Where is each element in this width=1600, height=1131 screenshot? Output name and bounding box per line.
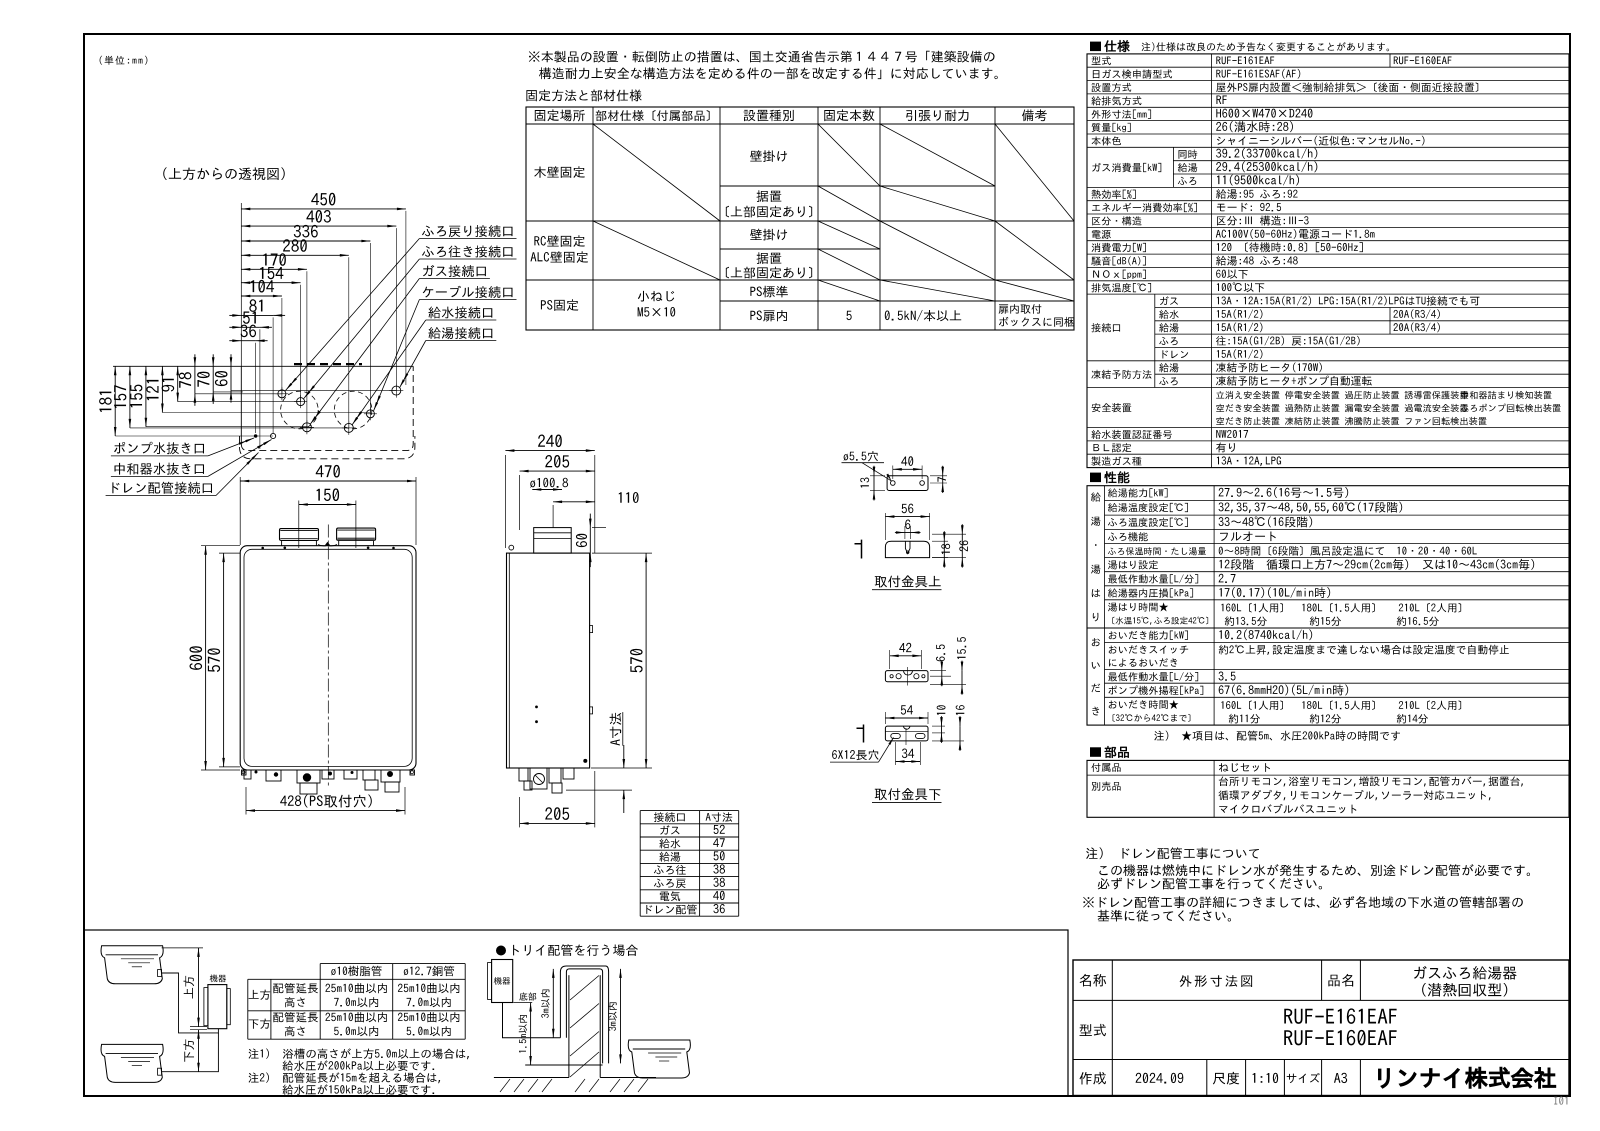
performance row ポンプ機外揚程 xyxy=(1108,685,1203,695)
water-supply connector xyxy=(344,423,353,432)
dimension 10 (bracket-bottom) xyxy=(932,725,945,727)
spec rows 接続口 xyxy=(1091,323,1120,332)
dimension 70 (top view depth) xyxy=(212,366,214,392)
furo-return connector xyxy=(278,390,286,398)
dimension 155 (top view depth) xyxy=(145,366,147,426)
performance row 給湯器内圧損[kPa] xyxy=(1108,588,1193,597)
piping note 2 xyxy=(249,1072,441,1083)
spec row 電源 xyxy=(1092,230,1111,239)
fixing table diagonals (empty cells) xyxy=(593,124,720,221)
spec row 排気温度 xyxy=(1091,283,1151,292)
dimension 570 (side height) xyxy=(592,552,652,554)
piping table header φ12.7銅管 xyxy=(404,966,454,976)
dimension 336 (top view width) xyxy=(241,240,370,242)
side view wall plate line xyxy=(508,553,510,768)
A-table row 電気=40 xyxy=(660,891,680,901)
piping table row 下方 xyxy=(249,1019,270,1029)
bracket-top keyhole slot xyxy=(905,541,910,553)
label 機器 (tori) xyxy=(494,977,510,985)
top view back wall line xyxy=(113,365,413,367)
side view panel dots xyxy=(535,706,538,709)
top view unit dashed outline xyxy=(240,366,242,444)
front view pipe base screws xyxy=(284,547,287,550)
fixing table caption xyxy=(526,90,641,102)
dimension 60 (top view depth) xyxy=(230,366,232,390)
dimension 280 (top view width) xyxy=(241,254,348,256)
title cell サイズ xyxy=(1287,1073,1320,1083)
label 取付金具上 xyxy=(875,575,941,587)
piping table row 上方 xyxy=(249,990,271,1000)
title cell A3 xyxy=(1334,1073,1347,1083)
dimension 36 (top view width) xyxy=(241,340,255,342)
label furo-return connector (ふろ戻り接続口) xyxy=(422,225,513,237)
spec row 区分・構造 xyxy=(1092,216,1141,225)
bracket-top lower part xyxy=(885,541,929,557)
label 6X12長穴 xyxy=(832,750,878,760)
sheet number I01 xyxy=(1554,1097,1567,1105)
performance row 給湯温度設定[℃] xyxy=(1108,503,1188,512)
A-table row 接続口=A寸法 xyxy=(654,812,685,822)
tori ground line left xyxy=(494,1077,569,1079)
label pump drain (ポンプ水抜き口) xyxy=(114,442,204,455)
spec row 消費電力 xyxy=(1092,243,1146,252)
label トリイ配管を行う場合 xyxy=(496,946,506,956)
spec row 製造ガス種 xyxy=(1091,456,1141,465)
bracket-top hole left xyxy=(891,481,896,486)
fixing row RC壁固定/ALC壁固定 xyxy=(534,235,584,247)
spec row 型式 xyxy=(1092,56,1111,65)
upper bathtub xyxy=(101,946,163,984)
installation note line 1 xyxy=(529,51,995,63)
dimension 170 (top view width) xyxy=(241,268,307,270)
tori piping route xyxy=(503,969,603,1064)
tori mid ground line xyxy=(525,1064,602,1066)
performance row ふろ温度設定[℃] xyxy=(1108,518,1188,527)
label water-supply connector (給水接続口) xyxy=(428,306,492,318)
performance row ふろ保温時間・たし湯量 xyxy=(1108,547,1206,555)
spec row ガス消費量 同時 xyxy=(1092,163,1161,172)
front view top screw left xyxy=(261,547,264,550)
dimension 570 (front bracket height) xyxy=(219,552,240,554)
fixing cell 壁掛け (木壁) xyxy=(750,150,787,162)
front view inner panel xyxy=(244,549,412,766)
piping section box xyxy=(84,930,1068,1096)
label φ5.5穴 xyxy=(844,451,878,461)
dimension 40 (bracket-top holes) xyxy=(892,466,894,480)
front view bottom right foot xyxy=(410,770,415,775)
performance row おいだき時間 xyxy=(1109,700,1179,709)
front view center line xyxy=(327,525,329,787)
label gas connector (ガス接続口) xyxy=(423,265,486,277)
fixing cell 据置 (木壁) xyxy=(757,190,782,202)
label neutralizer drain (中和器水抜き口) xyxy=(114,463,204,475)
dimension 51 (top view width) xyxy=(241,326,260,328)
drain note line 2 xyxy=(1098,877,1322,889)
spec row NOx xyxy=(1093,270,1146,279)
dimension 1.5m以内 xyxy=(530,1003,532,1066)
fixing table grid xyxy=(526,107,1074,330)
performance group label おいだき xyxy=(1092,638,1100,646)
performance row 湯はり設定 xyxy=(1108,560,1158,569)
unit note (単位:mm) xyxy=(100,56,148,65)
performance row 湯はり時間 xyxy=(1108,602,1168,611)
title cell 尺度 xyxy=(1213,1072,1239,1085)
drain note heading xyxy=(1086,847,1259,859)
dimension 104 (top view width) xyxy=(241,295,282,297)
front view body outline xyxy=(240,546,416,770)
bracket-bottom strip lower xyxy=(885,726,928,741)
spec row 熱効率 xyxy=(1092,190,1136,199)
A-table row 給水=47 xyxy=(659,838,680,848)
dimension 7 (bracket-top) xyxy=(930,475,947,477)
spec row 質量 xyxy=(1092,123,1131,132)
label furo-supply connector (ふろ往き接続口) xyxy=(422,245,513,257)
piping from lower tub to unit xyxy=(162,1033,219,1072)
front view exhaust pipe (left) xyxy=(280,529,319,541)
top view mounting plate (thick dashed) xyxy=(294,363,362,365)
front view top center mark xyxy=(325,542,330,546)
title cell 2024.09 xyxy=(1136,1073,1184,1084)
label 機器 (left diagram) xyxy=(210,974,226,982)
dimension 154 (top view width) xyxy=(241,282,300,284)
dimension 3m以内 (right) xyxy=(620,969,622,1064)
fixing cell 据置 (RC) xyxy=(757,252,782,264)
dimension 3m以内 (left) xyxy=(552,969,554,1038)
label cable connector (ケーブル接続口) xyxy=(423,286,513,298)
spec row ガス消費量 ふろ xyxy=(1178,177,1196,185)
performance row 給湯能力[kW] xyxy=(1108,488,1168,497)
performance row おいだきスイッチ xyxy=(1109,645,1188,654)
spec row BL認定 xyxy=(1093,443,1131,452)
title company リンナイ株式会社 xyxy=(1379,1067,1556,1088)
dimension 26 (bracket-top) xyxy=(932,533,966,535)
piping table header φ10樹脂管 xyxy=(331,966,381,976)
dimension 56 (bracket-top width) xyxy=(884,513,886,540)
top view exhaust zone dashed circle right xyxy=(334,391,372,429)
spec rows 凍結予防方法 xyxy=(1091,370,1151,379)
A-dimension table xyxy=(640,810,739,812)
label 底部 xyxy=(519,992,536,1000)
fixing cell 扉内取付ボックスに同梱 xyxy=(999,304,1042,314)
label hot-water connector (給湯接続口) xyxy=(428,327,492,339)
side view flue pipe xyxy=(534,528,572,554)
title cell 品名 xyxy=(1328,974,1353,987)
top view left extension line xyxy=(240,203,242,366)
tori heater unit box xyxy=(492,960,513,1003)
dimension 15.5 (bracket-bottom) xyxy=(930,684,966,686)
neutralizer drain port circle xyxy=(271,433,276,438)
parts table grid xyxy=(1087,760,1569,817)
dimension 6 (keyhole) xyxy=(904,526,906,539)
front view top screw right xyxy=(392,547,395,550)
title cell 名称 xyxy=(1080,974,1107,987)
performance row おいだき能力 xyxy=(1109,631,1188,640)
fixing cell PS扉内 xyxy=(750,310,787,322)
bracket-top hole right xyxy=(920,481,925,486)
title block grid xyxy=(1073,960,1569,1096)
parts row 付属品 xyxy=(1092,763,1121,772)
heater unit box (left diagram) xyxy=(208,985,227,1029)
dimension A (A寸法) xyxy=(610,713,622,746)
cable connector xyxy=(366,410,374,418)
label 取付金具下 xyxy=(875,788,941,800)
upper tub outlet xyxy=(158,970,162,977)
spec row 設置方式 xyxy=(1092,83,1132,92)
A-table row 給湯=50 xyxy=(659,852,680,862)
spec row ガス消費量 給湯 xyxy=(1178,163,1197,172)
piping from upper tub to unit xyxy=(162,973,219,1033)
bracket-top strip xyxy=(887,476,928,491)
dimension 34 (bracket-bottom slots) xyxy=(895,742,897,765)
dimension 181 (top view depth) xyxy=(114,366,116,436)
dimension 16 (bracket-bottom) xyxy=(932,740,964,742)
dimension 470 (front width) xyxy=(239,477,241,545)
bracket-bottom slots 6x12 xyxy=(891,734,901,739)
installation note line 2 xyxy=(539,67,998,79)
front view intake pipe (right) xyxy=(337,528,376,540)
title row3 separators xyxy=(1111,1060,1113,1096)
side view latch tick lower xyxy=(590,707,593,714)
side view body outline xyxy=(507,553,590,768)
bracket-top side clip symbol xyxy=(855,540,862,559)
bracket-bottom strip upper xyxy=(885,671,928,682)
performance group label 給湯・湯はり xyxy=(1091,492,1101,501)
dimension 78 (top view depth) xyxy=(194,366,196,394)
performance table grid xyxy=(1087,486,1569,725)
dimension 403 (top view width) xyxy=(241,225,396,227)
tori bathtub right xyxy=(628,1040,690,1078)
title model numbers xyxy=(1284,1008,1396,1024)
fixing cell 固定本数 5 xyxy=(846,311,851,320)
spec row 騒音 xyxy=(1091,256,1146,265)
tori ground line right xyxy=(600,1077,656,1079)
performance note xyxy=(1154,731,1400,741)
A-table row ドレン配管=36 xyxy=(646,904,696,914)
top view exhaust zone dashed circle left xyxy=(281,391,319,429)
A-table row ふろ戻=38 xyxy=(654,879,686,888)
performance row 最低作動水量 おいだき xyxy=(1108,672,1198,681)
fixing row 木壁固定 xyxy=(534,166,585,178)
dimension 81 (top view width) xyxy=(241,314,273,316)
dimension 150 (pipe spacing) xyxy=(298,501,300,549)
spec row 本体色 xyxy=(1092,136,1121,145)
ground hatching xyxy=(500,1079,510,1092)
dimension 121 (top view depth) xyxy=(161,366,163,412)
drain note line 1 xyxy=(1099,864,1530,876)
dimension 6.5 (bracket-bottom) xyxy=(930,670,946,672)
dimension 205 (side top) xyxy=(519,475,521,530)
dimension 157 (top view depth) xyxy=(129,366,131,428)
fixing cell 0.5kN/本以上 xyxy=(885,310,961,321)
fixing row PS固定 xyxy=(541,299,578,311)
dimension 450 (top view width) xyxy=(241,208,406,210)
parts row 別売品 xyxy=(1092,782,1121,791)
hot-water connector xyxy=(392,386,401,395)
performance row ふろ機能 xyxy=(1108,532,1148,541)
parts section header ■部品 xyxy=(1090,747,1101,757)
front view bottom left foot xyxy=(242,770,247,775)
dimension 下方 xyxy=(198,1030,200,1072)
fixing cell 小ねじ M5×10 xyxy=(638,291,674,302)
furo-supply connector xyxy=(297,398,305,406)
front view bottom fittings xyxy=(244,770,251,779)
piping note 1 xyxy=(249,1048,469,1059)
dimension 240 (side depth) xyxy=(504,455,506,548)
title cell 型式 xyxy=(1080,1024,1106,1036)
spec table grid xyxy=(1087,54,1569,468)
spec row 給水装置認証番号 xyxy=(1091,430,1172,439)
dimension 600 (front height) xyxy=(201,545,240,547)
spec row 日ガス検申請型式 xyxy=(1093,69,1172,78)
piping length table xyxy=(320,963,465,965)
drain note line 4 xyxy=(1098,910,1231,922)
spec row 外形寸法 xyxy=(1092,110,1151,119)
dimension 54 (bracket-bottom) xyxy=(884,712,886,724)
dimension 110 (flue offset) xyxy=(552,505,554,528)
fixing cell PS標準 xyxy=(750,286,787,298)
gas connector xyxy=(302,423,311,432)
bracket-bottom side clip symbol xyxy=(857,725,864,743)
spec row 安全装置 xyxy=(1092,403,1132,412)
A-table row ガス=52 xyxy=(660,825,679,834)
dimension 18 (bracket-top) xyxy=(932,540,948,542)
dimension 上方 xyxy=(162,947,203,949)
dimension 428 PS mounting holes xyxy=(245,787,247,815)
spec section header ■仕様 xyxy=(1090,42,1101,52)
bracket-bottom strip holes xyxy=(890,675,893,678)
dimension 60 (flue height) xyxy=(592,527,606,529)
drain note line 3 xyxy=(1083,896,1523,908)
title cell 1:10 xyxy=(1253,1073,1278,1083)
fixing cell 壁掛け (RC) xyxy=(750,229,787,241)
fixing table headers xyxy=(535,109,585,121)
title cell ガスふろ給湯器(潜熱回収型) xyxy=(1414,966,1517,980)
spec row エネルギー消費効率 xyxy=(1092,203,1197,212)
top view caption (上方からの透視図) xyxy=(163,167,285,180)
lower bathtub xyxy=(101,1044,163,1082)
performance row 最低作動水量[L/分] xyxy=(1108,574,1198,583)
side view latch tick upper xyxy=(590,626,593,633)
dimension 42 (bracket-bottom) xyxy=(889,650,891,669)
lower tub outlet xyxy=(158,1068,162,1075)
side view bottom fittings xyxy=(519,768,528,781)
tori wall hatched xyxy=(568,975,570,1077)
dimension 13 (bracket-top) xyxy=(870,475,885,477)
dimension 205 (side bottom) xyxy=(519,797,521,827)
title cell 作成 xyxy=(1080,1072,1106,1085)
label drain piping connector (ドレン配管接続口) xyxy=(112,482,212,494)
title cell 外形寸法図 xyxy=(1180,975,1252,987)
performance section header ■性能 xyxy=(1090,473,1101,483)
spec row 給排気方式 xyxy=(1091,96,1141,105)
side view top hook xyxy=(509,545,514,550)
dimension 91 (top view depth) xyxy=(177,366,179,401)
dimension φ100.8 (flue diameter) xyxy=(530,478,568,488)
pump drain port dot xyxy=(254,434,258,438)
A-table row ふろ往=38 xyxy=(654,865,686,875)
